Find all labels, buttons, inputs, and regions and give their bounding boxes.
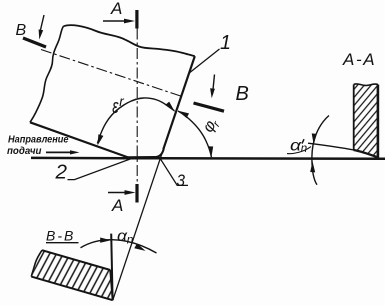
section A-A hatching (345, 78, 385, 163)
section B-B tool body: top edge (42, 250, 110, 270)
svg-text:В-В: В-В (46, 228, 75, 244)
part label 3 leader (161, 159, 188, 185)
main horizontal surface line (31, 157, 385, 160)
angle arc alpha-n (81, 240, 157, 253)
section marker B top-left: bar (23, 38, 46, 47)
svg-text:3: 3 (177, 171, 186, 190)
svg-text:А: А (110, 0, 122, 18)
flank extension line (thin) (308, 143, 354, 150)
svg-text:подачи: подачи (7, 146, 42, 157)
angle arc alpha'n (312, 116, 329, 185)
curved leader under alpha'n (287, 147, 311, 154)
section marker B right: bar (194, 103, 225, 111)
section B-B tool body: bottom edge (31, 277, 112, 301)
svg-text:А: А (111, 196, 123, 215)
workpiece 1 bottom edge (main cutting edge) (30, 122, 128, 157)
edge extension line down to B-B view (113, 147, 165, 300)
workpiece 1 top wavy edge (64, 25, 195, 56)
tip flat edge (transition edge 2) (128, 156, 155, 159)
workpiece 1 left wavy edge (30, 26, 64, 122)
workpiece 1 right edge (minor cutting edge, thick) (163, 56, 195, 149)
svg-text:2: 2 (54, 161, 67, 183)
section A-A tool body: top wavy broken edge (354, 84, 378, 86)
vertical reference line in B-B (111, 234, 112, 300)
angle arc phi-r (178, 111, 211, 157)
section marker A top: arrow (103, 20, 125, 22)
section B-B hatching (25, 245, 120, 306)
svg-text:В: В (236, 83, 249, 105)
angle arc epsilon-r (97, 98, 174, 144)
part label 2 leader (68, 159, 132, 180)
svg-text:1: 1 (220, 32, 231, 54)
section A-A tool body: left edge (353, 85, 355, 151)
section A-A tool body: right edge (377, 85, 380, 160)
section B-B tool body: left wavy broken edge (31, 250, 42, 276)
angle label phi-r (rotated) (200, 114, 224, 136)
svg-text:ε: ε (112, 96, 119, 118)
svg-text:А-А: А-А (342, 50, 376, 69)
section marker A bottom: arrow (108, 192, 126, 194)
svg-text:В: В (16, 22, 27, 39)
vertical dash-dot section trace A (136, 29, 138, 185)
section marker B top-left: arrow (40, 15, 44, 32)
svg-text:n: n (127, 232, 134, 246)
slanted dash-dot axis line (41, 50, 182, 97)
section B-B tool body: right edge (110, 270, 112, 300)
section marker A top: bar (135, 10, 138, 29)
section marker A bottom: bar (135, 184, 138, 203)
feed direction arrow (46, 151, 72, 153)
svg-text:r: r (119, 94, 124, 109)
section A-A tool body: flank bottom edge (thick) (354, 150, 378, 157)
section marker B right: arrow (213, 75, 215, 94)
part label 1 leader (188, 49, 219, 74)
section B-B label underline (46, 242, 79, 244)
svg-text:Направление: Направление (8, 135, 69, 146)
nose radius curve (155, 149, 164, 158)
